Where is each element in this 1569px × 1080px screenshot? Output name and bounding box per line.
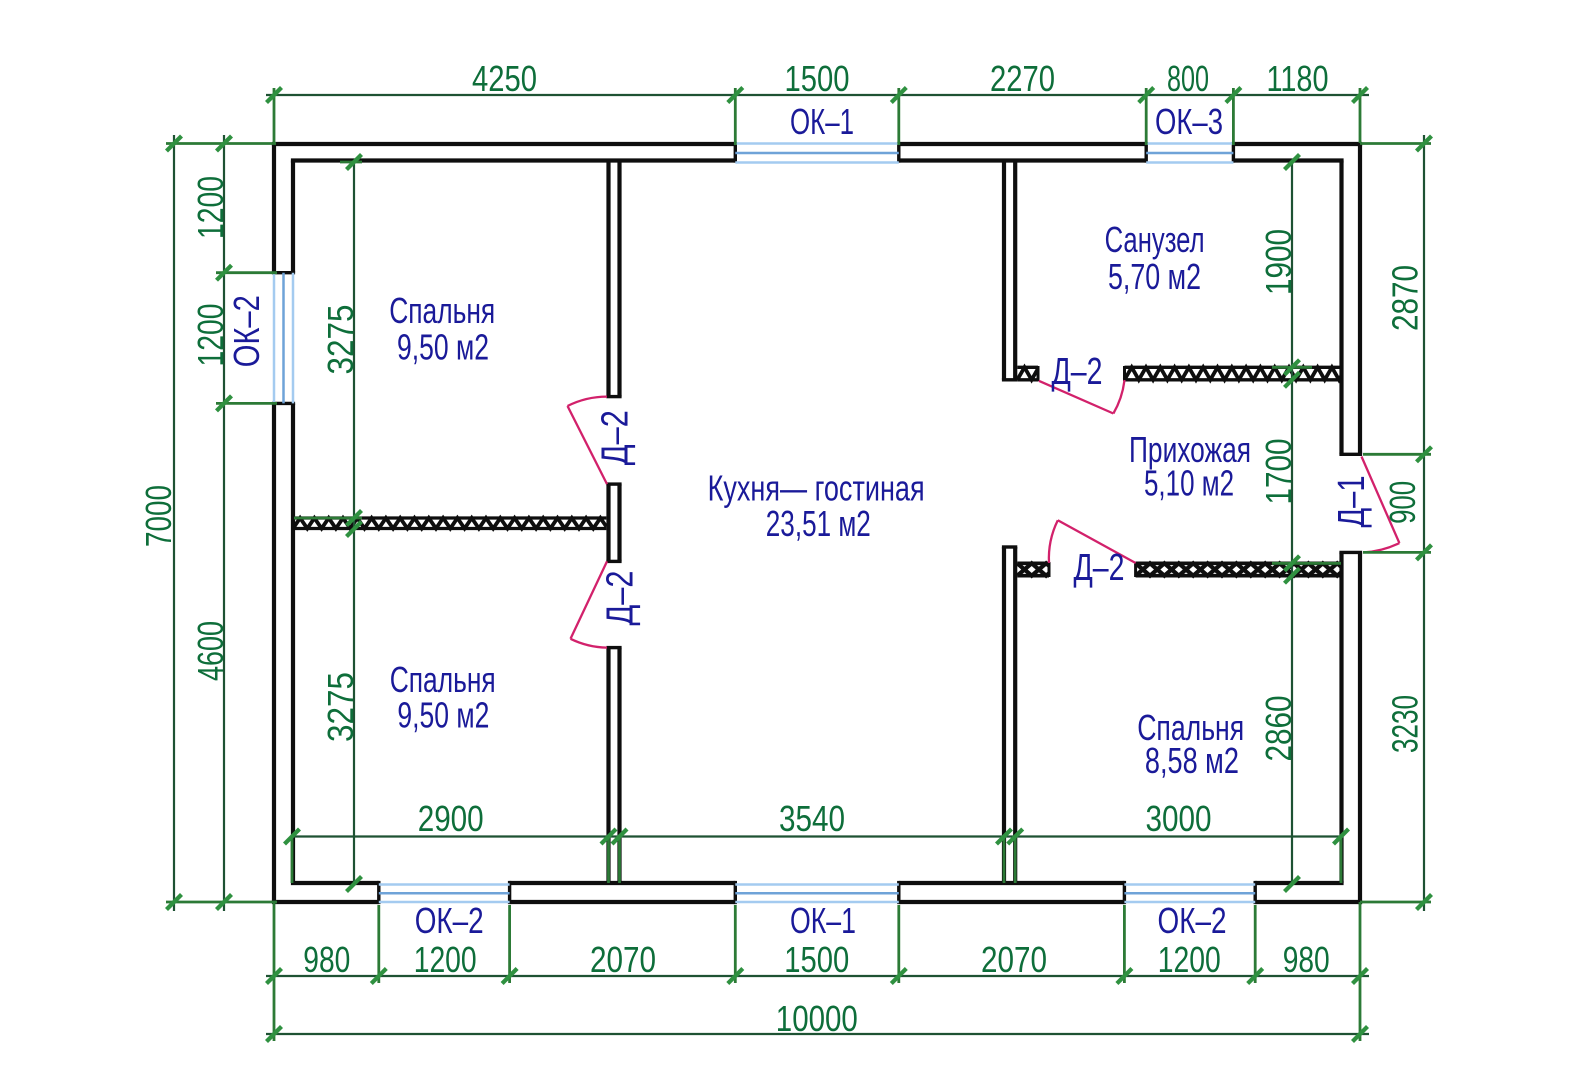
svg-text:9,50 м2: 9,50 м2 (397, 695, 489, 736)
room label hallway (1129, 429, 1251, 504)
label OK-2 left (226, 295, 267, 367)
wall interior top inner line (291, 158, 1344, 162)
svg-text:5,70 м2: 5,70 м2 (1108, 256, 1201, 297)
svg-text:1200: 1200 (1158, 939, 1221, 980)
window OK-2 bottom-left jamb caps (379, 881, 510, 904)
door D-2 bathroom leaf and swing arc (1039, 380, 1125, 414)
svg-text:10000: 10000 (776, 998, 858, 1039)
svg-text:2270: 2270 (990, 58, 1055, 99)
ticks top dimension line (267, 88, 1368, 103)
extension lines left edge (166, 144, 277, 903)
svg-text:2070: 2070 (590, 939, 656, 980)
svg-text:ОК–1: ОК–1 (790, 101, 854, 142)
ticks left outer dimension line (167, 136, 182, 910)
dimension line bottom inner (266, 975, 1369, 977)
hallway door jamb caps (1049, 562, 1136, 577)
dim text 2860 (1258, 696, 1299, 762)
dim text 1700 (1258, 439, 1299, 505)
dim text 1500 bottom (784, 939, 849, 980)
dim text 10000 (776, 998, 858, 1039)
wall exterior bottom outer line (272, 900, 1362, 904)
dim text 3275 lower (320, 672, 361, 742)
room label bathroom (1105, 219, 1205, 297)
door D-2 bedroom1 leaf and swing arc (568, 397, 608, 485)
ticks interior right dimension line (1285, 155, 1300, 892)
svg-text:2870: 2870 (1385, 265, 1426, 331)
dim text 1180 (1267, 58, 1329, 99)
window OK-2 bottom-right glazing (1124, 885, 1255, 903)
dim text 1200 bottom right (1158, 939, 1221, 980)
label D-2 bedroom2 door (599, 571, 641, 626)
extension lines bottom edge (274, 902, 1360, 1041)
dim text 800 (1167, 58, 1209, 99)
dim text 3230 (1385, 695, 1426, 753)
ticks bottom inner dimension line (267, 969, 1368, 984)
hatched wall between bedrooms (293, 518, 606, 529)
window OK-1 top glazing (735, 144, 899, 163)
dim text 1500 top (785, 58, 850, 99)
ticks left inner dimension line (217, 136, 232, 910)
dim text 3275 upper (320, 305, 361, 375)
wall exterior right outer line (1358, 144, 1362, 904)
ticks bottom outer dimension line (267, 1027, 1368, 1042)
partition kitchen/bathroom segment (1002, 159, 1017, 380)
dim text 980 left (303, 939, 350, 980)
extension lines interior right dim (1272, 367, 1341, 563)
dimension line right (1423, 135, 1425, 911)
svg-text:980: 980 (303, 939, 350, 980)
partition bedrooms/kitchen middle segment (606, 484, 621, 561)
svg-text:4600: 4600 (190, 621, 231, 681)
dimension line bottom outer 10000 (266, 1033, 1369, 1035)
room label bedroom3 (1137, 707, 1244, 781)
svg-text:ОК–2: ОК–2 (226, 295, 267, 367)
dim text 1900 (1258, 229, 1299, 295)
window OK-2 left glazing (274, 273, 293, 404)
svg-text:Д–2: Д–2 (1074, 547, 1125, 589)
dimension line interior left 3275 (353, 162, 355, 884)
hatched wall bathroom south stub (1017, 367, 1038, 380)
label D-2 bedroom1 door (595, 410, 637, 465)
dim text 2900 (418, 798, 484, 839)
svg-text:8,58 м2: 8,58 м2 (1145, 740, 1239, 781)
dim text 3540 (779, 798, 845, 839)
svg-text:3275: 3275 (320, 672, 361, 742)
door D-2 bedroom2 leaf and swing arc (571, 561, 608, 647)
window OK-2 left wall jamb caps (272, 273, 295, 404)
window OK-1 bottom glazing (735, 885, 899, 903)
svg-text:Д–2: Д–2 (595, 410, 637, 465)
svg-text:ОК–3: ОК–3 (1155, 101, 1223, 142)
svg-text:1180: 1180 (1267, 58, 1329, 99)
svg-text:1700: 1700 (1258, 439, 1299, 505)
label OK-2 bottom-right (1158, 900, 1227, 941)
dimension line interior bottom 2900/3540/3000 (292, 835, 1341, 837)
svg-text:1900: 1900 (1258, 229, 1299, 295)
svg-text:1200: 1200 (190, 304, 231, 367)
dim text 2870 (1385, 265, 1426, 331)
wall interior bottom inner line (291, 881, 1344, 885)
label OK-3 top (1155, 101, 1223, 142)
svg-text:900: 900 (1382, 481, 1423, 524)
extension lines top edge (274, 88, 1360, 145)
svg-text:9,50 м2: 9,50 м2 (397, 327, 489, 368)
svg-text:ОК–2: ОК–2 (1158, 900, 1227, 941)
svg-text:ОК–2: ОК–2 (415, 900, 484, 941)
room label bedroom2 (390, 659, 496, 736)
svg-text:4250: 4250 (472, 58, 537, 99)
svg-text:2860: 2860 (1258, 696, 1299, 762)
extension lines right edge (1360, 144, 1431, 903)
dimension line left inner (223, 135, 225, 911)
svg-text:Д–2: Д–2 (599, 571, 641, 626)
window OK-3 top jamb caps (1146, 142, 1233, 163)
label D-1 entry door (1331, 476, 1373, 528)
room label bedroom1 (389, 290, 495, 368)
dim text 980 right (1283, 939, 1330, 980)
svg-text:1500: 1500 (785, 58, 850, 99)
svg-text:5,10 м2: 5,10 м2 (1144, 463, 1234, 504)
wall interior right inner line (1339, 161, 1343, 884)
wall interior left inner line (291, 161, 295, 884)
label OK-1 top (790, 101, 854, 142)
dimension line left outer 7000 (173, 135, 175, 911)
partition kitchen/bedroom3 segment (1002, 547, 1017, 883)
window OK-1 top jamb caps (735, 142, 899, 163)
bathroom door jamb caps (1038, 366, 1125, 381)
svg-text:23,51 м2: 23,51 м2 (766, 503, 871, 544)
ticks interior left dimension line (347, 155, 362, 892)
svg-text:980: 980 (1283, 939, 1330, 980)
svg-text:3230: 3230 (1385, 695, 1426, 753)
dim text 1200 left lower (190, 304, 231, 367)
dim text 900 (1382, 481, 1423, 524)
label D-2 hallway door (1074, 547, 1125, 589)
svg-text:3000: 3000 (1146, 798, 1212, 839)
svg-text:Санузел: Санузел (1105, 219, 1205, 260)
room label kitchen-living (708, 468, 925, 545)
window OK-2 bottom-left glazing (379, 885, 510, 903)
hatched wall bathroom south main (1125, 367, 1342, 380)
partition bedrooms/kitchen lower segment (606, 648, 621, 883)
dim text 2070 right (981, 939, 1047, 980)
dimension line interior right 1900/1700/2860 (1291, 162, 1293, 884)
svg-text:Спальня: Спальня (389, 290, 495, 331)
partition bedrooms/kitchen upper segment (606, 159, 621, 397)
label OK-2 bottom-left (415, 900, 484, 941)
svg-text:3275: 3275 (320, 305, 361, 375)
hatched wall hallway south main (1136, 563, 1342, 575)
svg-text:2900: 2900 (418, 798, 484, 839)
svg-text:7000: 7000 (138, 485, 179, 547)
svg-text:Д–2: Д–2 (1052, 351, 1103, 393)
dim text 4600 (190, 621, 231, 681)
dim text 7000 (138, 485, 179, 547)
extension lines interior bottom dims (292, 837, 1341, 884)
label OK-1 bottom (790, 900, 856, 941)
extension lines interior left dim (294, 162, 362, 518)
window OK-2 bottom-right jamb caps (1124, 881, 1255, 904)
wall exterior left outer line (272, 144, 276, 902)
dim text 3000 (1146, 798, 1212, 839)
door D-1 entry leaf and swing arc (1362, 457, 1400, 553)
dim text 1200 left upper (190, 176, 231, 239)
dimension line top (266, 94, 1369, 96)
svg-text:1200: 1200 (414, 939, 477, 980)
dim text 1200 bottom left (414, 939, 477, 980)
dim text 4250 (472, 58, 537, 99)
svg-text:ОК–1: ОК–1 (790, 900, 856, 941)
dim text 2070 left (590, 939, 656, 980)
door D-2 hallway leaf and swing arc (1049, 520, 1136, 563)
svg-text:1200: 1200 (190, 176, 231, 239)
svg-text:3540: 3540 (779, 798, 845, 839)
wall exterior top outer line (272, 142, 1362, 146)
label D-2 bathroom door (1052, 351, 1103, 393)
svg-text:800: 800 (1167, 58, 1209, 99)
window OK-3 top glazing (1146, 144, 1233, 163)
svg-text:1500: 1500 (784, 939, 849, 980)
door D-1 right wall jamb caps (1339, 454, 1362, 552)
hatched wall hallway south stub (1017, 563, 1049, 575)
window OK-1 bottom jamb caps (735, 881, 899, 904)
svg-text:Д–1: Д–1 (1331, 476, 1373, 528)
dim text 2270 (990, 58, 1055, 99)
svg-text:2070: 2070 (981, 939, 1047, 980)
ticks right dimension line (1417, 136, 1432, 910)
ticks interior bottom dimension line (285, 829, 1349, 844)
